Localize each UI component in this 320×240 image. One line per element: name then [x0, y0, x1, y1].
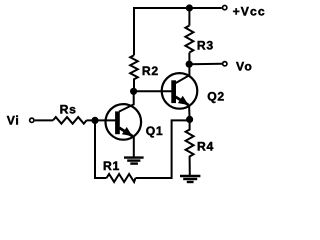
svg-text:Vi: Vi	[7, 114, 20, 128]
resistor Rs	[53, 117, 87, 124]
transistor Q1 emitter arrow	[122, 127, 133, 136]
transistor Q2 base bar	[171, 80, 176, 103]
transistor Q2 body	[162, 73, 198, 109]
wire: junction B to Q2 base	[133, 90, 171, 92]
transistor Q1 base bar	[115, 111, 120, 134]
terminal: Vi input	[30, 118, 34, 122]
transistor Q1 emitter lead	[119, 128, 132, 136]
transistor Q2 emitter arrow	[178, 96, 189, 105]
resistor R2	[130, 55, 138, 91]
wire: Vo output lead	[189, 63, 222, 65]
node: top rail junction	[186, 4, 193, 11]
ground (R4)	[180, 176, 200, 182]
wire: R3 bottom lead to Vo junction	[188, 53, 190, 65]
svg-text:+Vcc: +Vcc	[233, 4, 266, 18]
wire: Q2 collector lead	[176, 64, 190, 83]
transistor Q1 body	[106, 104, 142, 140]
transistor Q1 collector lead	[119, 91, 134, 111]
svg-text:R2: R2	[142, 64, 159, 78]
node: Q2 emitter / R4 junction	[186, 116, 193, 123]
wire: R3 top lead from rail	[188, 8, 190, 26]
terminal: Vo	[223, 62, 227, 66]
wire: Q2 emitter lead	[176, 97, 189, 105]
svg-text:Rs: Rs	[60, 102, 77, 116]
svg-text:R1: R1	[103, 159, 120, 173]
terminal: +Vcc	[223, 5, 227, 9]
svg-text:R4: R4	[197, 140, 214, 154]
node: Q1 collector / Q2 base junction	[130, 88, 137, 95]
wire: top +Vcc rail	[134, 8, 222, 55]
wire: input junction down to bottom rail	[95, 120, 107, 178]
node: Vo junction	[186, 61, 193, 68]
wire: Vi input lead	[35, 119, 53, 121]
wire: Q2 emitter to R4 junction	[188, 106, 191, 119]
svg-text:Q2: Q2	[207, 89, 225, 103]
resistor R3	[185, 26, 193, 53]
svg-text:Vo: Vo	[236, 59, 253, 73]
wire: Q1 emitter to ground	[133, 136, 135, 157]
wire: Rs to Q1 base	[87, 119, 116, 121]
ground (Q1 emitter)	[124, 158, 144, 164]
node: input / R1 junction	[91, 117, 98, 124]
resistor R4	[186, 119, 194, 175]
wire: bottom feedback rail to Q2 emitter junction	[136, 120, 190, 178]
svg-text:R3: R3	[197, 38, 214, 52]
svg-text:Q1: Q1	[146, 124, 164, 138]
resistor R1	[107, 174, 136, 182]
